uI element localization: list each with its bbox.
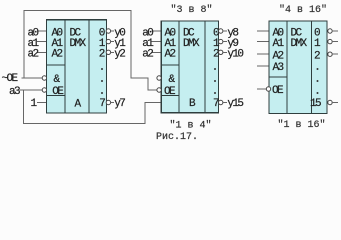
wire a2 to A2 of DMX B	[152, 51, 162, 53]
wires from DMX A outputs to y labels	[111, 31, 114, 103]
demultiplexer A function label DC DMX	[70, 27, 87, 50]
wire a0 to A0 of DMX A	[37, 30, 47, 32]
svg-text:"4 в 16": "4 в 16"	[279, 4, 327, 16]
wire a3 branch under the bottom to DMX B data input	[24, 90, 162, 124]
demultiplexer A ellipsis dots in output column	[101, 68, 103, 94]
wire a1 to A1 of DMX B	[152, 41, 162, 43]
demultiplexer C output bubbles rows 0,1,2,15	[328, 29, 332, 105]
node labels y0 y1 y2 y7	[114, 27, 126, 110]
demultiplexer C pin labels	[272, 27, 285, 97]
svg-text:A2: A2	[273, 51, 284, 63]
svg-text:DMX: DMX	[70, 38, 87, 50]
demultiplexer A internal dividers	[47, 20, 90, 113]
svg-text:y7: y7	[114, 98, 125, 110]
node labels a0 a1 a2 left	[28, 27, 40, 60]
svg-text:A2: A2	[165, 49, 176, 61]
node labels y8 y9 y10 y15	[227, 27, 243, 110]
demultiplexer A input inversion bubble on & pin	[42, 76, 46, 80]
demultiplexer B pin labels	[164, 27, 177, 98]
demultiplexer A output numbers	[99, 27, 106, 110]
wires input stubs to DMX C address pins	[257, 31, 269, 89]
demultiplexer C input inversion bubble on OE pin	[266, 87, 270, 91]
svg-text:~OE: ~OE	[2, 73, 19, 85]
svg-text:y10: y10	[227, 49, 243, 61]
wires output stubs of DMX C	[332, 31, 338, 103]
demultiplexer B internal dividers	[161, 21, 205, 113]
svg-text:"1 в 16": "1 в 16"	[277, 119, 325, 131]
demultiplexer A body	[47, 20, 107, 113]
demultiplexer B ellipsis dots in output column	[214, 68, 216, 94]
demultiplexer A input inversion bubble on OE pin	[42, 88, 46, 92]
demultiplexer C body (4 to 16)	[269, 21, 327, 114]
svg-text:y2: y2	[114, 49, 125, 61]
svg-text:DMX: DMX	[183, 38, 200, 50]
wire a0 to A0 of DMX B	[152, 30, 162, 32]
svg-text:"3 в 8": "3 в 8"	[170, 4, 212, 16]
wire a1 to A1 of DMX A	[37, 41, 47, 43]
demultiplexer B function label DC DMX	[183, 27, 200, 50]
demultiplexer B input inversion bubble on & pin	[157, 76, 161, 80]
svg-text:"1 в 4": "1 в 4"	[169, 119, 211, 131]
wire ~OE feed to DMX A & input	[22, 77, 43, 79]
wires from DMX B outputs to y labels	[223, 31, 227, 103]
demultiplexer B output bubbles rows 0,1,2,7	[219, 29, 223, 105]
svg-text:DMX: DMX	[291, 38, 308, 50]
wire a3 feed to DMX A OE input	[20, 89, 43, 91]
demultiplexer A output bubbles rows 0,1,2,7	[106, 29, 110, 105]
svg-text:A3: A3	[273, 62, 284, 74]
demultiplexer C function label DC DMX	[291, 27, 308, 50]
demultiplexer B body	[161, 21, 218, 113]
demultiplexer B input inversion bubble on OE pin	[157, 88, 161, 92]
svg-text:a3: a3	[9, 86, 20, 98]
svg-text:a2: a2	[28, 49, 39, 61]
svg-text:15: 15	[310, 98, 321, 110]
wire a2 to A2 of DMX A	[37, 51, 47, 53]
demultiplexer C ellipsis dots in output column	[317, 68, 319, 94]
demultiplexer C output numbers	[310, 27, 321, 110]
svg-text:Рис.17.: Рис.17.	[156, 132, 198, 143]
wire ~OE branch over the top to DMX B OE input	[24, 11, 157, 91]
demultiplexer B output numbers	[213, 27, 220, 110]
demultiplexer C internal dividers	[269, 21, 312, 114]
wire logic 1 to data input of DMX A	[37, 102, 47, 104]
svg-text:y15: y15	[227, 98, 243, 110]
demultiplexer A pin labels	[52, 27, 65, 98]
svg-text:a2: a2	[142, 49, 153, 61]
svg-text:A2: A2	[52, 49, 63, 61]
node labels a0 a1 a2 middle	[142, 27, 154, 60]
